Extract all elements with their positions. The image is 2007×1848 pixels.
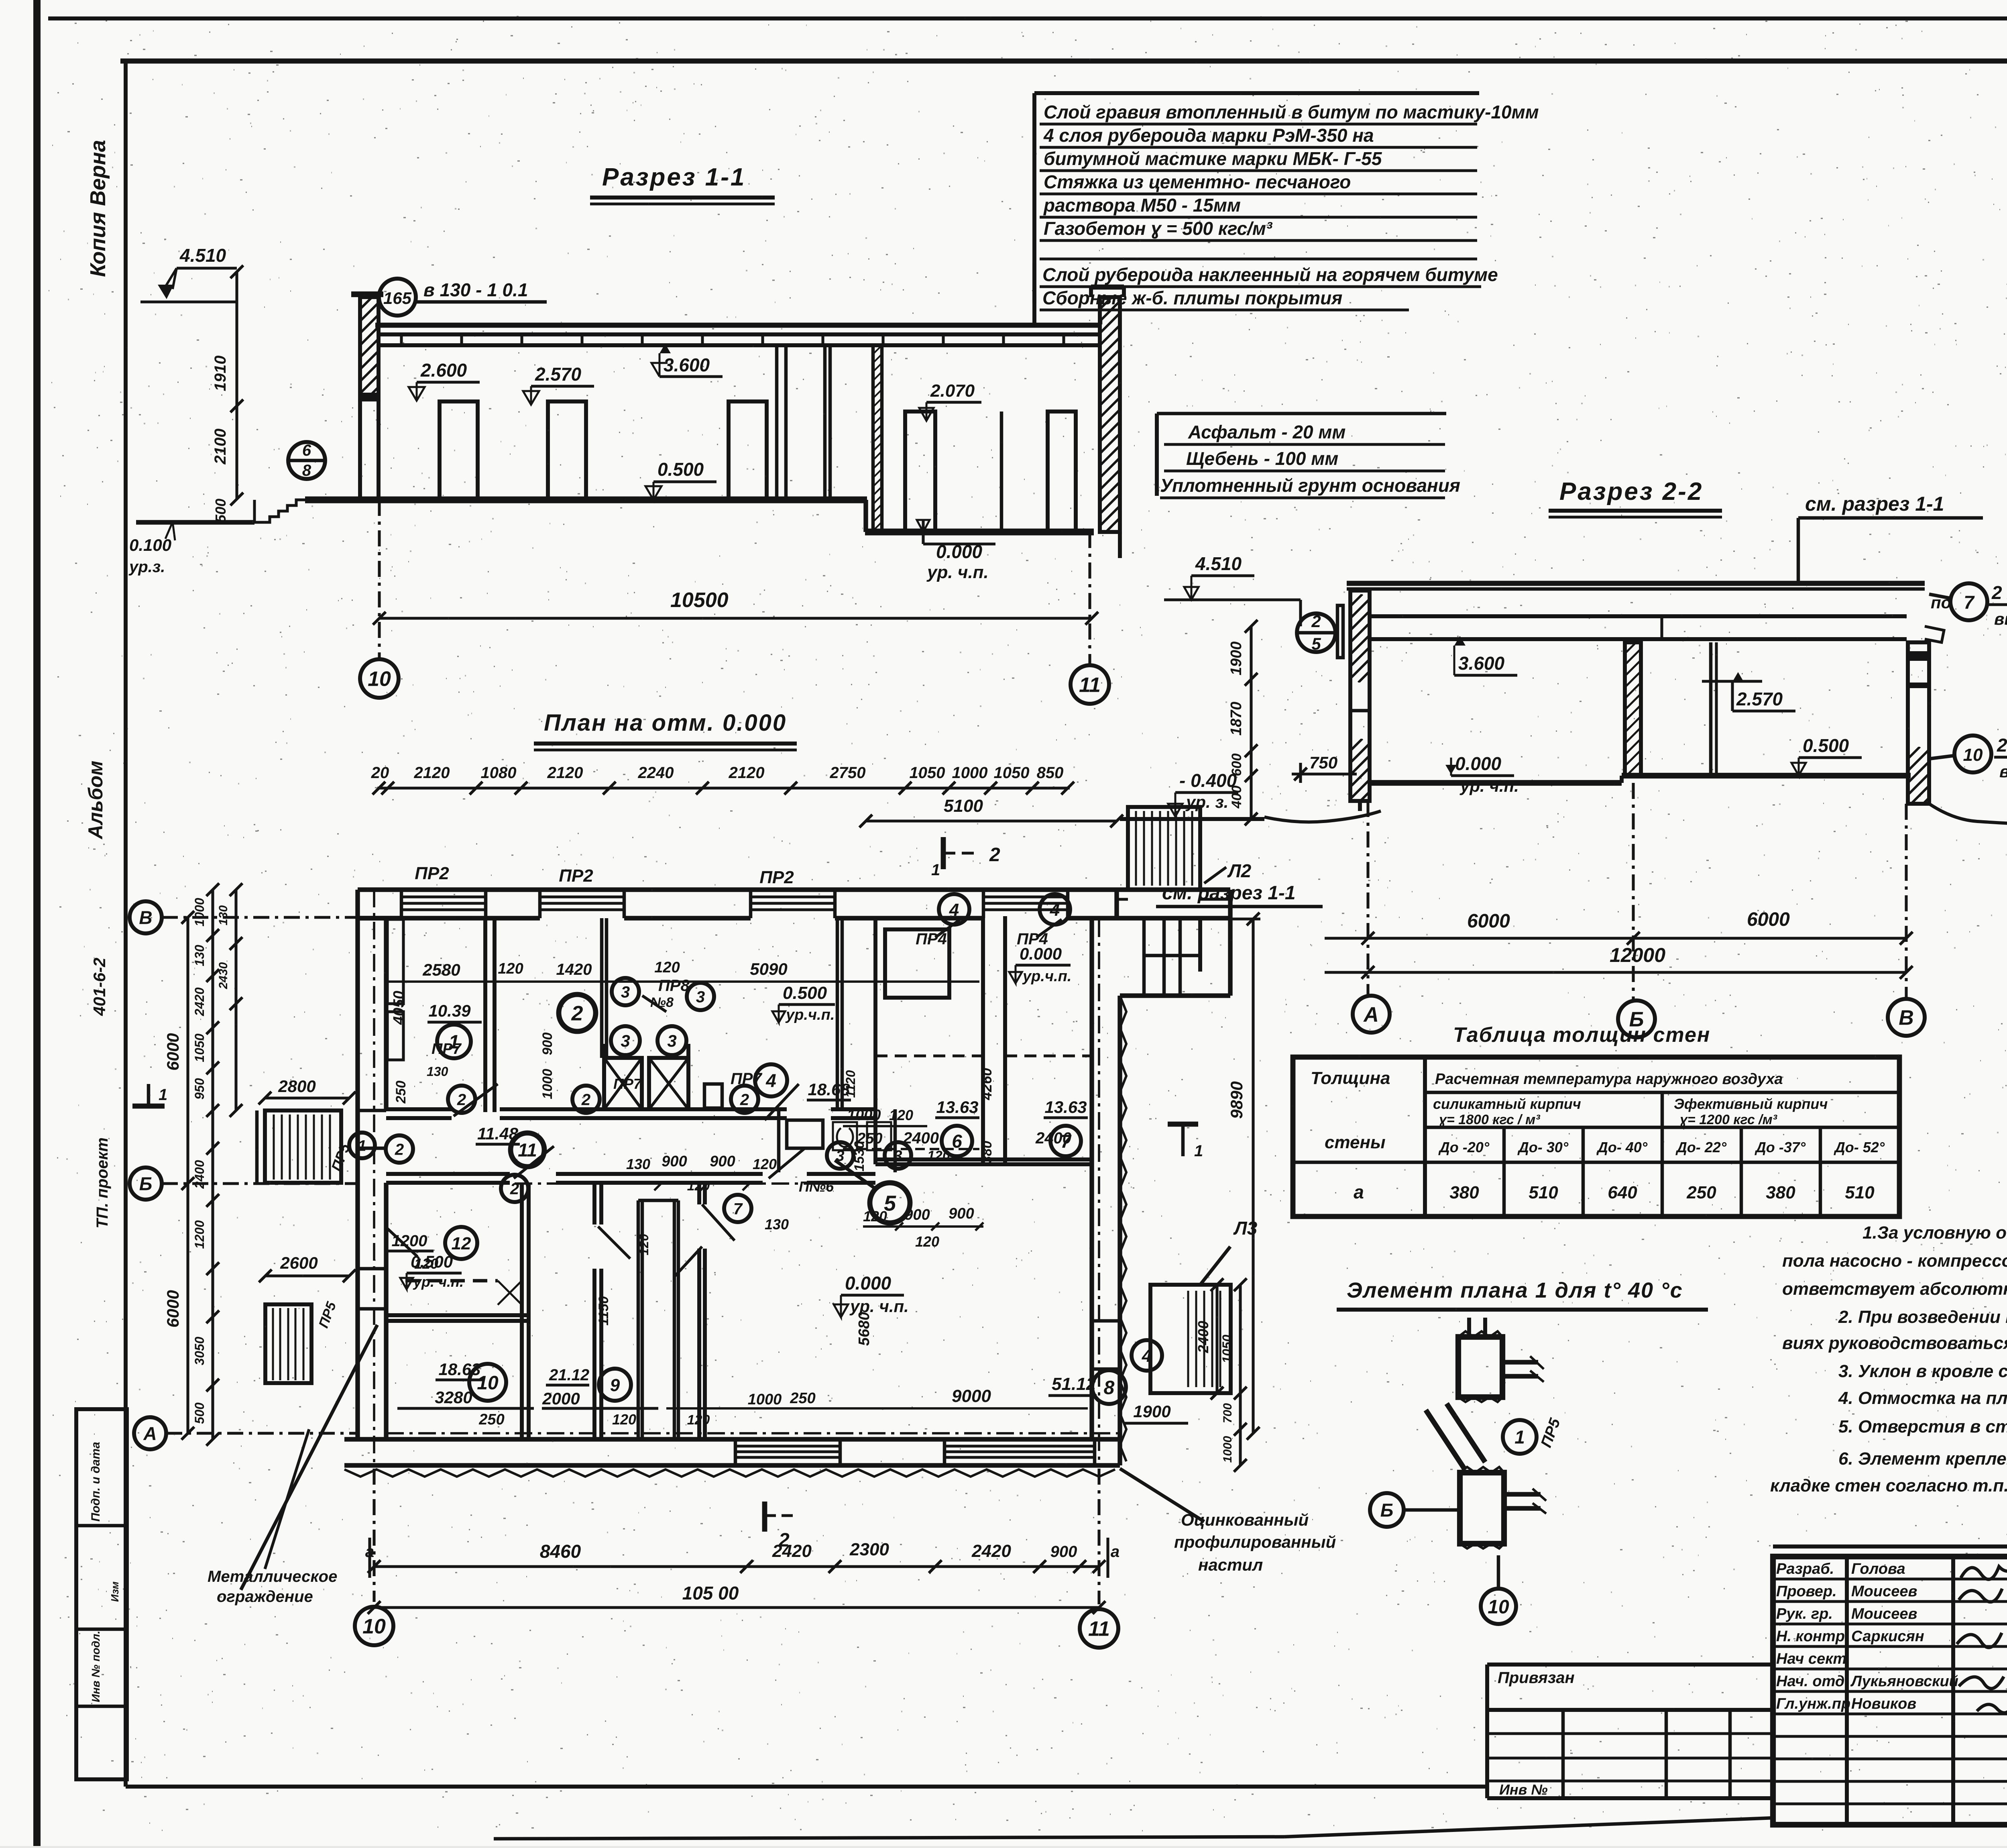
circled 1 entrance — [349, 1133, 375, 1158]
room circles 6 7 — [942, 1126, 972, 1156]
svg-text:Щебень - 100 мм: Щебень - 100 мм — [1186, 448, 1338, 469]
svg-text:До- 30°: До- 30° — [1517, 1139, 1569, 1155]
svg-text:ɣ= 1200 кгс /м³: ɣ= 1200 кгс /м³ — [1680, 1112, 1778, 1127]
section 1-1 left parapet wall — [360, 297, 379, 399]
dashed door room12 — [387, 1229, 417, 1257]
svg-text:Н. контр.: Н. контр. — [1776, 1628, 1849, 1645]
sec2-2 footing left — [1358, 801, 1362, 811]
plan top wall — [358, 887, 1230, 892]
svg-text:виях руководствоваться: виях руководствоваться главой СНиП Ш. П.… — [1782, 1333, 2007, 1353]
circle 6/8 — [288, 442, 325, 479]
svg-text:силикатный кирпич: силикатный кирпич — [1433, 1096, 1581, 1112]
svg-text:500: 500 — [192, 1402, 207, 1424]
svg-text:250: 250 — [1686, 1183, 1716, 1202]
svg-text:5680: 5680 — [856, 1312, 873, 1346]
bottom axis circles — [372, 1469, 375, 1602]
tambour dashed route — [405, 1279, 498, 1283]
svg-text:10: 10 — [1488, 1596, 1509, 1618]
interior door 2 — [548, 401, 586, 500]
svg-text:165: 165 — [383, 289, 412, 308]
axis line 10 — [378, 500, 381, 659]
svg-text:2580: 2580 — [422, 960, 460, 979]
axis circle V left — [130, 901, 162, 933]
axis circle B left — [130, 1167, 162, 1200]
elev 0.000 lower — [917, 520, 930, 532]
svg-text:13.63: 13.63 — [936, 1098, 978, 1117]
svg-text:ПР8: ПР8 — [658, 977, 690, 994]
circled 2 door marks — [448, 1086, 475, 1113]
right wing top — [1228, 890, 1232, 996]
svg-text:А: А — [1363, 1003, 1379, 1027]
svg-text:900: 900 — [904, 1206, 930, 1223]
axis line 11 — [1088, 532, 1091, 665]
svg-text:ПР2: ПР2 — [559, 866, 593, 886]
svg-text:1530: 1530 — [852, 1141, 867, 1172]
svg-text:11: 11 — [518, 1140, 537, 1161]
svg-text:400: 400 — [1229, 786, 1244, 809]
plan top dim 5100 — [866, 819, 1117, 822]
svg-text:9: 9 — [610, 1375, 620, 1395]
svg-text:см. разрез 1-1: см. разрез 1-1 — [1805, 493, 1944, 515]
svg-text:До -37°: До -37° — [1755, 1139, 1806, 1155]
axis circle 4c — [1132, 1340, 1162, 1371]
svg-text:250: 250 — [790, 1390, 815, 1407]
svg-text:1050: 1050 — [994, 764, 1030, 782]
element upper pipe — [1502, 1360, 1538, 1364]
svg-text:8: 8 — [1104, 1377, 1115, 1398]
shower stalls — [604, 1058, 642, 1109]
svg-text:4: 4 — [1142, 1346, 1152, 1366]
frame left line — [124, 61, 128, 1787]
floor line 1-1 — [305, 497, 867, 503]
svg-text:13.63: 13.63 — [1044, 1098, 1087, 1117]
circle 165 — [379, 279, 416, 316]
svg-text:380: 380 — [1449, 1183, 1479, 1202]
svg-text:Б: Б — [1380, 1500, 1394, 1521]
element circle B — [1370, 1493, 1404, 1527]
svg-text:Таблица толщин стен: Таблица толщин стен — [1453, 1023, 1710, 1047]
room circle 12 — [445, 1227, 477, 1259]
svg-text:0.000: 0.000 — [1020, 944, 1062, 963]
svg-text:900: 900 — [1050, 1543, 1077, 1561]
svg-text:1: 1 — [1194, 1142, 1203, 1160]
room5 left wall — [697, 1183, 701, 1204]
svg-text:2: 2 — [571, 1002, 583, 1025]
svg-text:ТП. проект: ТП. проект — [94, 1137, 111, 1229]
element upper block — [1458, 1337, 1502, 1397]
svg-text:2.600: 2.600 — [420, 360, 467, 381]
svg-text:4260: 4260 — [978, 1068, 995, 1100]
svg-text:120: 120 — [612, 1411, 636, 1428]
svg-text:3.600: 3.600 — [664, 355, 710, 375]
svg-text:Стяжка из цементно- песчаног: Стяжка из цементно- песчаного — [1044, 171, 1351, 192]
svg-text:120: 120 — [637, 1234, 651, 1255]
axis circle V2 — [1888, 999, 1925, 1036]
stairs ground left — [254, 500, 305, 522]
svg-text:Гл.унж.пр: Гл.унж.пр — [1776, 1695, 1850, 1712]
svg-text:4050: 4050 — [391, 991, 407, 1025]
svg-text:Толщина: Толщина — [1311, 1068, 1390, 1088]
privyazan box — [1487, 1663, 1773, 1667]
axis dashdot A through plan — [386, 1432, 1120, 1434]
sec2-2 right wall — [1908, 642, 1929, 804]
svg-text:1900: 1900 — [1228, 642, 1245, 676]
svg-text:Оцинкованный: Оцинкованный — [1181, 1510, 1309, 1529]
svg-text:а: а — [1354, 1182, 1364, 1202]
svg-text:6000: 6000 — [163, 1290, 182, 1327]
window opening bottom — [735, 1445, 840, 1447]
svg-text:130: 130 — [626, 1156, 650, 1172]
svg-text:Слой рубероида наклеенный на: Слой рубероида наклеенный на горячем бит… — [1042, 264, 1498, 285]
svg-text:2240: 2240 — [638, 764, 674, 782]
svg-text:ур.ч.п.: ур.ч.п. — [1022, 968, 1071, 985]
title block outer — [1773, 1544, 2007, 1548]
svg-text:1000: 1000 — [952, 764, 988, 782]
title block signature rows — [1773, 1577, 2007, 1580]
scan edge black bar — [33, 0, 41, 1846]
svg-text:4: 4 — [1050, 900, 1060, 920]
svg-text:900: 900 — [662, 1153, 687, 1170]
svg-text:250: 250 — [393, 1081, 409, 1104]
svg-text:11: 11 — [1079, 674, 1101, 697]
svg-text:ур. ч.п.: ур. ч.п. — [1459, 776, 1519, 795]
svg-text:2: 2 — [510, 1180, 519, 1198]
svg-text:2: 2 — [457, 1091, 466, 1108]
svg-text:1: 1 — [449, 1031, 460, 1053]
svg-text:Асфальт - 20 мм: Асфальт - 20 мм — [1188, 422, 1345, 442]
vert dim chain 1-1 — [235, 272, 238, 499]
sec2-2 mid column — [1625, 642, 1641, 776]
svg-text:Л2: Л2 — [1227, 860, 1252, 881]
svg-text:Лукьяновский: Лукьяновский — [1850, 1673, 1958, 1690]
mid hatched wall — [873, 345, 882, 532]
left dim line 1 — [186, 917, 189, 1433]
interior door 3 — [729, 401, 767, 500]
sheet top edge line — [48, 16, 2007, 20]
svg-text:2120: 2120 — [414, 764, 450, 782]
section mark 1 left — [132, 1104, 165, 1109]
svg-text:1200: 1200 — [392, 1232, 427, 1250]
svg-text:1050: 1050 — [910, 764, 945, 782]
axis circle 10 — [360, 659, 399, 698]
roof plate joints — [400, 335, 403, 344]
svg-text:120: 120 — [687, 1412, 710, 1428]
bottom wall — [344, 1437, 1120, 1441]
axis dashdot B through plan — [386, 1182, 875, 1185]
svg-text:Рук. гр.: Рук. гр. — [1776, 1606, 1833, 1622]
svg-text:Изм: Изм — [109, 1581, 121, 1602]
plan top dim chain — [377, 786, 1070, 789]
element slanted break — [1426, 1410, 1464, 1469]
left dim line 3 — [234, 890, 237, 1110]
svg-text:8: 8 — [302, 462, 311, 479]
wall plate mark — [1337, 605, 1343, 658]
sec2-2 left vert chain — [1250, 626, 1252, 819]
svg-text:6. Элемент крепления газ: 6. Элемент крепления газопроводных сетей… — [1838, 1449, 2007, 1469]
svg-text:До -20°: До -20° — [1438, 1139, 1490, 1155]
roof slab 1-1 — [375, 323, 1101, 328]
walls below corridor — [520, 1183, 524, 1439]
partition a — [775, 345, 779, 500]
bottom dim chain 1 — [374, 1565, 1099, 1568]
svg-text:Голова: Голова — [1851, 1561, 1905, 1577]
svg-text:раствора М50: раствора М50 - 15мм — [1043, 195, 1241, 216]
svg-text:2.070: 2.070 — [930, 381, 975, 401]
element lower pipe — [1504, 1492, 1541, 1496]
svg-text:120: 120 — [654, 959, 680, 976]
dim 10500 — [379, 617, 1092, 619]
roof spec block border — [1032, 93, 1036, 326]
wall table grid — [1293, 1057, 1899, 1216]
svg-text:3: 3 — [894, 1148, 902, 1165]
svg-text:380: 380 — [1766, 1183, 1795, 1202]
svg-text:Разрез 1-1: Разрез 1-1 — [602, 163, 746, 191]
svg-text:стены: стены — [1325, 1133, 1386, 1152]
wall room2/4 — [836, 918, 839, 1109]
lower floor line 1-1 — [865, 529, 1094, 536]
svg-text:2300: 2300 — [849, 1540, 889, 1559]
axis circle B2 — [1618, 1000, 1655, 1037]
svg-text:2: 2 — [581, 1091, 590, 1108]
svg-text:2: 2 — [778, 1530, 790, 1551]
svg-text:В: В — [1899, 1007, 1914, 1030]
svg-text:До- 22°: До- 22° — [1675, 1139, 1727, 1155]
room circle 11 — [511, 1133, 544, 1167]
svg-text:2: 2 — [395, 1141, 404, 1158]
leader from spec to roof — [1099, 319, 1103, 324]
svg-text:2000: 2000 — [542, 1389, 580, 1408]
svg-text:ответствует абсолютной о: ответствует абсолютной отметке — [1782, 1279, 2007, 1299]
svg-text:5: 5 — [1311, 634, 1321, 653]
svg-text:Новиков: Новиков — [1851, 1695, 1916, 1712]
roof spec block 2 — [1032, 263, 1036, 303]
svg-text:11.48: 11.48 — [477, 1124, 519, 1143]
room circle 1 — [437, 1025, 471, 1058]
svg-text:Сборные ж-б. плиты покрыти: Сборные ж-б. плиты покрытия — [1042, 287, 1342, 308]
asphalt spec block — [1155, 414, 1159, 496]
svg-text:Инв № подл.: Инв № подл. — [90, 1631, 102, 1702]
svg-text:2400: 2400 — [1035, 1129, 1071, 1147]
shower partition — [600, 918, 604, 1058]
svg-text:5100: 5100 — [944, 796, 983, 816]
svg-text:1050: 1050 — [192, 1033, 207, 1062]
svg-text:ур. ч.п.: ур. ч.п. — [413, 1273, 464, 1290]
svg-text:51.12: 51.12 — [1052, 1374, 1096, 1394]
bottom dim chain 2 — [374, 1606, 1099, 1609]
svg-text:Моисеев: Моисеев — [1851, 1606, 1917, 1622]
svg-text:4.510: 4.510 — [179, 245, 226, 266]
svg-text:120: 120 — [915, 1233, 939, 1250]
svg-text:600: 600 — [1229, 754, 1244, 776]
svg-text:Слой гравия втопленный в биту: Слой гравия втопленный в битум по мастик… — [1044, 102, 1539, 122]
svg-text:1080: 1080 — [481, 764, 517, 782]
svg-text:Саркисян: Саркисян — [1851, 1628, 1924, 1645]
svg-text:900: 900 — [710, 1153, 735, 1170]
svg-text:2600: 2600 — [280, 1253, 318, 1272]
room circle 10 — [469, 1364, 506, 1401]
leader metal fence — [241, 1325, 377, 1590]
svg-text:12: 12 — [452, 1234, 471, 1253]
element circle 10 — [1497, 1555, 1500, 1588]
svg-text:кладке стен согласно: кладке стен согласно т.п. 905- 7/77 альб… — [1770, 1476, 2007, 1496]
corridor top wall — [386, 1107, 452, 1111]
leader profiled deck — [1120, 1469, 1204, 1522]
axis circle 11 — [1071, 665, 1109, 704]
circle 2/5 — [1297, 613, 1335, 652]
svg-text:640: 640 — [1608, 1183, 1637, 1202]
svg-text:3. Уклон в кровле созд: 3. Уклон в кровле создать за счет газобе… — [1838, 1361, 2007, 1381]
svg-text:1000: 1000 — [540, 1069, 555, 1099]
svg-text:Разраб.: Разраб. — [1776, 1561, 1834, 1577]
svg-text:вып. 2: вып. 2 — [1994, 609, 2007, 628]
svg-text:10.39: 10.39 — [428, 1001, 471, 1020]
svg-text:120: 120 — [498, 960, 523, 977]
svg-text:120: 120 — [687, 1178, 710, 1194]
door swings corridor — [454, 1084, 498, 1116]
svg-text:4 слоя рубероида марки РэМ-: 4 слоя рубероида марки РэМ-350 на — [1043, 125, 1374, 146]
svg-text:вып. 1: вып. 1 — [1999, 762, 2007, 781]
svg-text:130: 130 — [217, 905, 230, 925]
title block signature columns — [1845, 1557, 1849, 1825]
svg-text:Нач сект: Нач сект — [1776, 1650, 1846, 1667]
svg-text:1000: 1000 — [748, 1391, 782, 1408]
svg-text:2: 2 — [740, 1091, 749, 1108]
svg-text:510: 510 — [1845, 1183, 1875, 1202]
svg-text:3280: 3280 — [435, 1388, 472, 1407]
svg-text:2400: 2400 — [1195, 1321, 1211, 1353]
svg-text:10500: 10500 — [670, 589, 729, 612]
shower front walls — [602, 1044, 606, 1109]
wavy eave line bottom — [344, 1469, 1115, 1477]
svg-text:2 260-1: 2 260-1 — [1991, 582, 2007, 603]
svg-text:18.63: 18.63 — [438, 1360, 480, 1379]
svg-text:ограждение: ограждение — [217, 1588, 313, 1606]
window opening — [983, 895, 1068, 898]
left dim line 2 — [211, 890, 214, 1439]
svg-text:2120: 2120 — [729, 764, 765, 782]
rooms 6/7 block — [873, 916, 877, 1164]
svg-text:1: 1 — [1514, 1427, 1525, 1448]
window opening — [751, 895, 835, 898]
svg-text:1: 1 — [159, 1086, 167, 1104]
svg-text:2750: 2750 — [830, 764, 866, 782]
svg-text:750: 750 — [1309, 753, 1337, 772]
svg-text:130: 130 — [427, 1064, 448, 1079]
svg-text:1870: 1870 — [1228, 702, 1245, 736]
sec2-2 dim 12000 — [1325, 971, 1906, 974]
svg-text:500: 500 — [212, 499, 229, 523]
right wing interior — [1162, 918, 1166, 996]
svg-text:2.570: 2.570 — [535, 364, 582, 385]
svg-text:130: 130 — [192, 945, 207, 966]
stair L3 porch right — [1150, 1285, 1231, 1393]
svg-text:Моисеев: Моисеев — [1851, 1583, 1917, 1600]
room circle 4 — [755, 1064, 787, 1096]
section mark 2 top — [941, 837, 946, 869]
svg-text:в 130 - 1 0.1: в 130 - 1 0.1 — [423, 279, 528, 300]
bottom-left stamp column — [76, 1409, 127, 1779]
axis circle A — [1353, 996, 1390, 1033]
axis circle A left — [134, 1417, 166, 1449]
left wall openings — [358, 1109, 386, 1112]
svg-text:ПР7: ПР7 — [613, 1076, 642, 1092]
svg-text:ПР2: ПР2 — [759, 868, 794, 887]
svg-text:7: 7 — [733, 1200, 743, 1218]
svg-text:1.За условную отметку 0: 1.За условную отметку 0.000 принят урове… — [1862, 1223, 2007, 1243]
small cell top rooms67 — [885, 929, 949, 998]
shaft — [637, 1200, 640, 1439]
svg-text:0.100: 0.100 — [129, 536, 171, 554]
svg-text:2. При возведении камерных: 2. При возведении камерных конструкций в… — [1838, 1307, 2007, 1327]
svg-text:3: 3 — [667, 1031, 676, 1050]
svg-text:ур.ч.п.: ур.ч.п. — [785, 1007, 835, 1023]
window opening — [401, 895, 486, 898]
svg-text:2420: 2420 — [971, 1541, 1011, 1561]
svg-text:9890: 9890 — [1227, 1081, 1246, 1119]
porch hatch B — [265, 1304, 311, 1383]
sec mark T1 right — [1168, 1122, 1198, 1127]
stair L2 porch — [1128, 807, 1200, 890]
wing window sill — [1117, 898, 1128, 901]
svg-text:1000: 1000 — [192, 898, 207, 926]
corridor bottom wall — [386, 1172, 510, 1176]
svg-text:0.500: 0.500 — [411, 1252, 453, 1271]
svg-text:а: а — [1111, 1543, 1120, 1561]
svg-text:Привязан: Привязан — [1498, 1669, 1575, 1687]
wc partitions — [787, 1120, 823, 1148]
svg-text:3.600: 3.600 — [1458, 653, 1505, 674]
svg-text:2100: 2100 — [212, 429, 229, 465]
sec2-2 floor — [1370, 780, 1622, 786]
right wall opening L3 — [1092, 1319, 1120, 1323]
right bottom small dims — [1215, 1285, 1218, 1393]
svg-text:0.000: 0.000 — [845, 1273, 892, 1294]
section 1-1 left wall below — [358, 400, 362, 500]
svg-text:3050: 3050 — [192, 1337, 207, 1365]
svg-text:120: 120 — [863, 1208, 887, 1225]
svg-text:2: 2 — [1311, 612, 1321, 631]
svg-text:2430: 2430 — [217, 962, 230, 989]
svg-text:6: 6 — [302, 442, 311, 459]
svg-text:ур. ч.п.: ур. ч.п. — [926, 562, 989, 582]
wall stub top left — [384, 918, 388, 982]
room circles 3 — [612, 978, 639, 1005]
svg-text:1000: 1000 — [847, 1107, 881, 1124]
svg-text:0.500: 0.500 — [1803, 735, 1849, 756]
svg-text:Провер.: Провер. — [1776, 1583, 1837, 1600]
sec2-2 axis dashes — [1366, 801, 1369, 996]
svg-text:см. разрез 1-1: см. разрез 1-1 — [1162, 882, 1296, 904]
svg-text:10: 10 — [368, 668, 391, 691]
svg-text:2.570: 2.570 — [1736, 689, 1783, 709]
room circle 8 — [1092, 1370, 1126, 1404]
axis circle 4b — [1040, 894, 1070, 925]
svg-text:ɣ= 1800 кгс / м³: ɣ= 1800 кгс / м³ — [1439, 1112, 1541, 1127]
sec2-2 dim 6000s — [1325, 937, 1906, 939]
svg-text:2420: 2420 — [192, 987, 207, 1016]
svg-text:120: 120 — [927, 1148, 950, 1163]
svg-text:2800: 2800 — [278, 1077, 316, 1096]
svg-text:0.000: 0.000 — [1455, 753, 1502, 774]
svg-text:4.510: 4.510 — [1195, 553, 1242, 574]
svg-text:Разрез 2-2: Разрез 2-2 — [1559, 478, 1703, 505]
svg-text:105 00: 105 00 — [682, 1583, 739, 1604]
svg-text:9000: 9000 — [952, 1386, 991, 1406]
svg-text:До- 40°: До- 40° — [1596, 1139, 1648, 1155]
sec2-2 right cornice — [1925, 626, 1944, 642]
mark 0.100 ur.z. — [165, 522, 175, 540]
window opening bottom — [944, 1445, 1095, 1447]
